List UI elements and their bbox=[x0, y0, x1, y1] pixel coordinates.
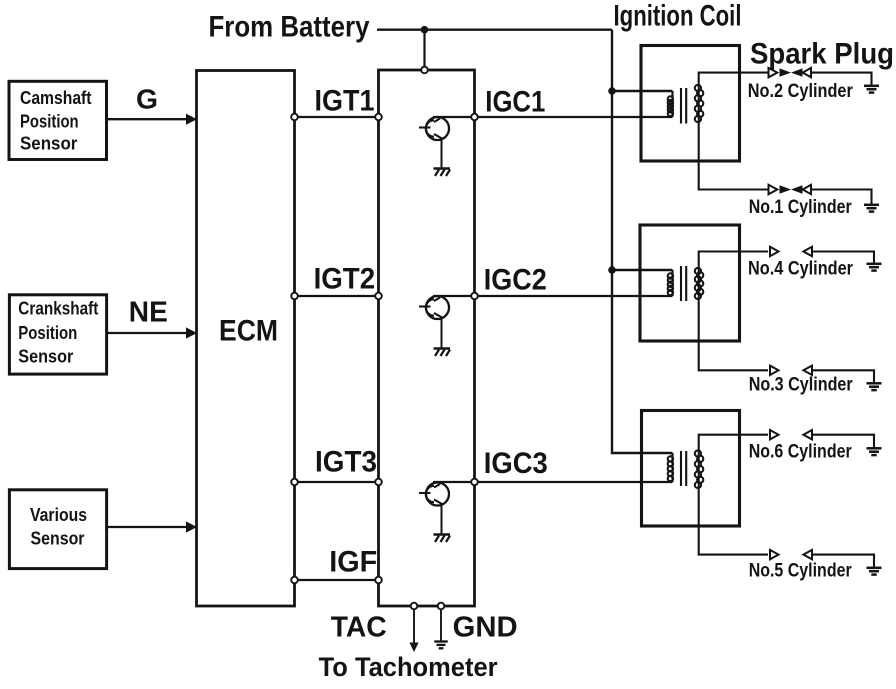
node NE label bbox=[129, 296, 168, 328]
terminal igniter IGC1 bbox=[471, 114, 478, 121]
svg-text:Ignition Coil: Ignition Coil bbox=[614, 0, 742, 33]
coil T2 primary winding bbox=[612, 270, 673, 296]
wire Q3 emitter bbox=[441, 505, 443, 535]
terminal igniter IGF bbox=[375, 577, 382, 584]
IGC3 label bbox=[484, 447, 548, 480]
crankshaft position sensor box bbox=[9, 295, 106, 374]
svg-text:Camshaft: Camshaft bbox=[20, 87, 92, 108]
wire coil T3 secondary top lead bbox=[699, 435, 768, 451]
terminal ECM IGT2 bbox=[291, 293, 298, 300]
spark plug No.6 gap bbox=[770, 430, 812, 439]
svg-text:No.4 Cylinder: No.4 Cylinder bbox=[748, 259, 854, 280]
svg-text:GND: GND bbox=[453, 611, 518, 643]
node G label bbox=[136, 84, 158, 115]
svg-text:Sensor: Sensor bbox=[18, 345, 73, 366]
terminal igniter IGT2 bbox=[375, 293, 382, 300]
wire IGT1: ECM to igniter bbox=[295, 116, 379, 118]
wire from battery bbox=[377, 29, 612, 31]
spark plug No.4 gap bbox=[770, 247, 812, 256]
wire IGF: ECM to igniter bbox=[295, 579, 379, 581]
wire No.6 plug to ground bbox=[812, 435, 874, 448]
wire NE: crankshaft sensor to ECM with arrowhead bbox=[107, 327, 198, 338]
svg-text:No.5 Cylinder: No.5 Cylinder bbox=[749, 561, 852, 582]
ground Q3 bbox=[434, 535, 451, 543]
No.3 Cylinder label bbox=[749, 375, 854, 396]
svg-text:IGF: IGF bbox=[329, 546, 377, 579]
junction battery/igniter bbox=[421, 26, 429, 34]
ignition coil T1 box bbox=[641, 46, 740, 162]
svg-text:No.1 Cylinder: No.1 Cylinder bbox=[749, 197, 852, 218]
terminal ECM IGF bbox=[291, 577, 298, 584]
svg-text:No.6 Cylinder: No.6 Cylinder bbox=[749, 442, 852, 463]
wire IGT2: ECM to igniter bbox=[295, 295, 379, 297]
wire No.3 plug to ground bbox=[812, 370, 874, 382]
ground GND bbox=[434, 642, 448, 649]
coil T1 secondary winding bbox=[695, 85, 704, 122]
coil T2 secondary winding bbox=[695, 268, 704, 299]
spark plug No.3 gap bbox=[770, 366, 812, 375]
terminal igniter IGT1 bbox=[375, 114, 382, 121]
From Battery label bbox=[209, 10, 370, 43]
Spark Plug label bbox=[750, 38, 894, 71]
camshaft position sensor box bbox=[9, 81, 107, 159]
IGF label bbox=[329, 546, 377, 579]
wire coil T3 secondary bottom lead bbox=[699, 488, 768, 555]
IGT3 label bbox=[315, 446, 377, 479]
igniter box bbox=[379, 70, 475, 606]
svg-text:Various: Various bbox=[30, 504, 87, 525]
ground Q1 bbox=[434, 169, 451, 177]
coil T3 core bbox=[681, 451, 686, 486]
svg-text:No.3 Cylinder: No.3 Cylinder bbox=[749, 375, 854, 396]
svg-text:Position: Position bbox=[20, 110, 79, 131]
ground Q2 bbox=[434, 349, 451, 357]
terminal igniter IGC2 bbox=[471, 293, 478, 300]
wire battery bus bbox=[612, 30, 673, 453]
wire G: camshaft sensor to ECM with arrowhead bbox=[107, 114, 198, 125]
terminal igniter GND bbox=[438, 603, 445, 610]
TAC label bbox=[331, 611, 387, 643]
spark plug No.2 gap bbox=[769, 68, 812, 77]
No.5 Cylinder label bbox=[749, 561, 852, 582]
ground No.4 bbox=[867, 264, 882, 271]
svg-text:IGT2: IGT2 bbox=[314, 262, 376, 295]
junction bus to coil1 bbox=[608, 87, 616, 95]
wire No.2 plug to ground bbox=[812, 73, 872, 85]
svg-text:From Battery: From Battery bbox=[209, 10, 370, 43]
wire battery drop to igniter bbox=[423, 30, 425, 67]
ECM U1 box bbox=[197, 71, 295, 607]
wire IGC2: igniter to coil2 primary bbox=[433, 295, 673, 297]
coil T2 core bbox=[681, 266, 686, 301]
spark plug No.5 gap bbox=[770, 550, 812, 559]
various sensor box bbox=[9, 490, 106, 569]
wire IGC3: igniter to coil3 primary bbox=[433, 481, 673, 483]
terminal igniter IGT3 bbox=[375, 479, 382, 486]
transistor Q1 bbox=[419, 117, 449, 140]
wire coil T1 secondary bottom lead bbox=[699, 122, 768, 190]
wire No.4 plug to ground bbox=[812, 252, 874, 263]
IGT2 label bbox=[314, 262, 376, 295]
terminal igniter IGC3 bbox=[471, 479, 478, 486]
terminal igniter B+ bbox=[421, 67, 428, 74]
wire TAC to tachometer bbox=[409, 610, 418, 653]
No.2 Cylinder label bbox=[748, 81, 854, 102]
No.4 Cylinder label bbox=[748, 259, 854, 280]
coil T1 primary winding bbox=[612, 91, 673, 117]
svg-text:ECM: ECM bbox=[219, 315, 278, 348]
transistor Q3 bbox=[419, 483, 449, 506]
terminal igniter TAC bbox=[411, 603, 418, 610]
ignition coil T2 box bbox=[640, 225, 740, 341]
svg-text:Sensor: Sensor bbox=[31, 527, 85, 548]
ground No.5 bbox=[867, 568, 882, 575]
svg-text:IGC1: IGC1 bbox=[485, 85, 545, 118]
ignition coil T3 box bbox=[642, 411, 740, 527]
wire coil T2 secondary bottom lead bbox=[699, 299, 768, 370]
coil T3 secondary winding bbox=[695, 450, 704, 488]
Ignition Coil label bbox=[614, 0, 742, 33]
svg-text:Position: Position bbox=[18, 322, 77, 343]
IGC2 label bbox=[484, 264, 547, 297]
wire Q1 emitter bbox=[441, 139, 443, 169]
svg-text:Sensor: Sensor bbox=[20, 133, 77, 154]
svg-text:No.2 Cylinder: No.2 Cylinder bbox=[748, 81, 854, 102]
ground No.6 bbox=[867, 448, 882, 455]
No.6 Cylinder label bbox=[749, 442, 852, 463]
wire coil T2 secondary top lead bbox=[699, 252, 768, 269]
wire GND bbox=[440, 610, 442, 642]
coil T3 primary winding bbox=[668, 453, 673, 482]
svg-text:TAC: TAC bbox=[331, 611, 387, 643]
ground No.3 bbox=[867, 383, 882, 390]
IGC1 label bbox=[485, 85, 545, 118]
wire coil T1 secondary top lead bbox=[699, 73, 768, 85]
wire Q2 emitter bbox=[441, 318, 443, 349]
ground No.1 bbox=[864, 205, 879, 212]
svg-text:IGT1: IGT1 bbox=[315, 84, 375, 117]
spark plug No.1 gap bbox=[769, 185, 812, 194]
GND label bbox=[453, 611, 518, 643]
svg-text:G: G bbox=[136, 84, 158, 115]
coil T1 core bbox=[681, 88, 686, 124]
svg-text:Spark Plug: Spark Plug bbox=[750, 38, 894, 71]
wire No.5 plug to ground bbox=[812, 555, 874, 567]
terminal ECM IGT1 bbox=[291, 114, 298, 121]
svg-text:IGC2: IGC2 bbox=[484, 264, 547, 297]
No.1 Cylinder label bbox=[749, 197, 852, 218]
svg-text:Crankshaft: Crankshaft bbox=[18, 297, 98, 318]
junction bus to coil2 bbox=[608, 266, 616, 274]
svg-text:NE: NE bbox=[129, 296, 168, 328]
svg-text:IGT3: IGT3 bbox=[315, 446, 377, 479]
ground No.2 bbox=[864, 86, 879, 93]
To Tachometer label bbox=[319, 652, 498, 682]
terminal ECM IGT3 bbox=[291, 479, 298, 486]
svg-text:IGC3: IGC3 bbox=[484, 447, 548, 480]
wire: various sensor to ECM with arrowhead bbox=[107, 521, 198, 532]
wire IGC1: igniter to coil1 primary bbox=[433, 116, 673, 118]
wire IGT3: ECM to igniter bbox=[295, 481, 379, 483]
svg-text:To Tachometer: To Tachometer bbox=[319, 652, 498, 682]
IGT1 label bbox=[315, 84, 375, 117]
wire No.1 plug to ground bbox=[812, 190, 872, 204]
transistor Q2 bbox=[419, 296, 449, 319]
